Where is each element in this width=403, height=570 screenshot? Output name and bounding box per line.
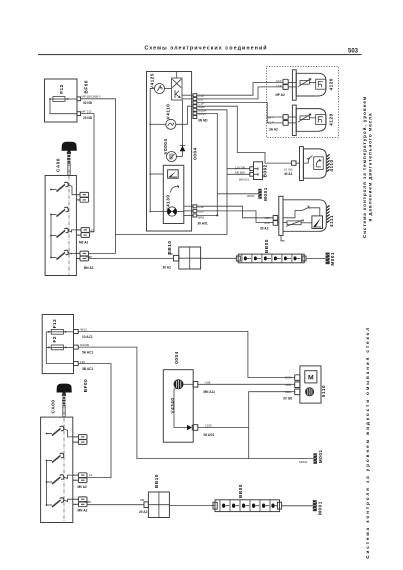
wire battery to strip: [201, 257, 237, 259]
instrument cluster 0004 box: [147, 72, 192, 232]
svg-text:M001: M001: [317, 501, 322, 515]
svg-text:BB10: BB10: [154, 474, 159, 488]
svg-text:C1P: C1P: [198, 205, 204, 209]
flange: [300, 147, 304, 181]
gauge V4125: [150, 84, 171, 94]
svg-text:61P: 61P: [198, 210, 203, 214]
sensor element box: [316, 115, 326, 125]
internal bus: [46, 332, 73, 364]
svg-text:5A AC1: 5A AC1: [82, 350, 93, 354]
svg-text:BM A21: BM A21: [239, 178, 250, 182]
thread hatch: [327, 154, 330, 171]
svg-text:MF 6B-D/6B-3: MF 6B-D/6B-3: [82, 95, 102, 99]
connector B002: [235, 162, 267, 182]
switch axis dash-dot: [68, 163, 70, 276]
module stubs to pins: [184, 206, 193, 215]
svg-text:BF00: BF00: [84, 80, 89, 93]
dashed enclosure: [267, 67, 339, 138]
flange: [279, 196, 283, 235]
svg-text:30 A2: 30 A2: [163, 265, 172, 269]
wire c4 to battery: [87, 504, 144, 506]
svg-text:B002: B002: [262, 164, 267, 177]
switch left bus: [50, 215, 52, 258]
svg-text:0004: 0004: [174, 351, 179, 363]
wire q3 to junction: [197, 214, 218, 216]
wire p5 to B002 net: [197, 110, 227, 235]
pin labels q: [198, 205, 204, 220]
lamp V4130: [150, 207, 184, 216]
wire q2 to 4111: [197, 211, 273, 223]
svg-text:MF 132: MF 132: [82, 109, 93, 113]
svg-text:M88: M88: [85, 500, 91, 504]
svg-text:NP A2: NP A2: [276, 93, 285, 97]
wire bus to module: [150, 173, 163, 175]
header rule: [38, 54, 361, 55]
earth strip BB00: [236, 239, 306, 263]
connector BF00 out1: [77, 97, 81, 101]
connector out3: [74, 362, 79, 366]
lamp V0004: [167, 152, 183, 162]
svg-text:3N ND: 3N ND: [198, 118, 208, 122]
sidebar caption top: [361, 96, 372, 238]
svg-text:40 A2: 40 A2: [284, 172, 293, 176]
svg-text:M001: M001: [263, 187, 268, 201]
svg-text:BB00: BB00: [264, 239, 269, 253]
flange: [292, 70, 296, 100]
junction: [216, 214, 218, 216]
ground M001 mid: [313, 449, 322, 463]
svg-text:14 T: 14 T: [268, 116, 274, 120]
wire branch B002 pin1: [227, 168, 250, 170]
wire p1 to sensor: [197, 83, 283, 96]
svg-text:C1P: C1P: [276, 84, 282, 88]
arc symbol: [171, 185, 180, 192]
svg-text:и давлением двигательного масл: и давлением двигательного масла: [368, 113, 373, 222]
earth strip BB00 lower: [213, 484, 282, 512]
svg-text:CA00: CA00: [56, 158, 61, 172]
svg-text:CA00: CA00: [51, 400, 56, 414]
svg-text:Система контроля за температур: Система контроля за температурой, уровне…: [361, 96, 367, 238]
switch contact 3: [46, 475, 73, 484]
body: [303, 149, 326, 178]
thread hatch: [327, 205, 330, 222]
svg-text:08 AG1: 08 AG1: [204, 433, 215, 437]
svg-text:503: 503: [348, 49, 359, 55]
svg-text:Схемы электрических соединен: Схемы электрических соединений: [144, 45, 267, 52]
wire p4 to 4110: [197, 106, 292, 163]
ignition switch box lower: [41, 417, 73, 522]
cluster 0004 lower box: [163, 370, 193, 443]
wire lamp down with diode: [174, 388, 192, 431]
svg-text:12V 6B: 12V 6B: [235, 165, 245, 169]
svg-text:M0 A2: M0 A2: [78, 485, 87, 489]
ignition switch CA00 box: [45, 176, 76, 276]
lamp V4340: [174, 380, 183, 389]
svg-text:BR5: BR5: [198, 216, 204, 220]
wire strip to ground lower: [282, 505, 313, 507]
svg-text:3A A2: 3A A2: [269, 128, 278, 132]
sensor 4120 upper: [276, 70, 334, 100]
fuse F12: [49, 97, 77, 102]
switch contact 4: [46, 498, 73, 507]
wire ground branch: [217, 193, 258, 195]
svg-text:A08: A08: [205, 380, 211, 384]
switch contact 3: [50, 228, 76, 237]
svg-text:V4130: V4130: [165, 194, 170, 210]
svg-text:M6 BW: M6 BW: [235, 170, 245, 174]
connector c1 lower: [73, 435, 87, 445]
svg-text:20 A2: 20 A2: [139, 510, 148, 514]
svg-text:10: 10: [91, 228, 95, 232]
wires pin to flange: [288, 82, 296, 84]
svg-text:30 A2: 30 A2: [260, 227, 269, 231]
meter symbol: [168, 170, 179, 178]
svg-text:V4125: V4125: [150, 73, 155, 89]
connector CA00 c1: [76, 192, 88, 202]
pin connectors: [283, 79, 288, 84]
svg-text:F12: F12: [52, 319, 57, 329]
wire q1 to 4111: [197, 206, 273, 218]
wire BF00 out2 to CA00 conn3: [81, 114, 94, 232]
svg-text:4120: 4120: [328, 113, 333, 125]
svg-text:4120: 4120: [328, 78, 333, 90]
internal bus: [149, 89, 151, 213]
pin connectors: [283, 115, 288, 120]
wire CA00 c4 to battery: [89, 258, 174, 260]
washer level sensor 5110: [283, 366, 326, 403]
ignition key lower: [57, 384, 72, 417]
ground M001 lower: [313, 500, 323, 515]
svg-text:F2: F2: [52, 336, 57, 342]
svg-text:10: 10: [89, 473, 93, 477]
fuse F12: [46, 329, 73, 334]
connector c4 lower: [73, 497, 87, 507]
wire 0004 to ground: [198, 428, 314, 459]
svg-text:M313: M313: [198, 112, 206, 116]
svg-text:1200: 1200: [205, 424, 212, 428]
contact: [303, 156, 312, 164]
connector BF00 out2: [77, 112, 81, 116]
wire lower sensor pin2: [267, 117, 283, 123]
connector out2: [74, 345, 79, 349]
switch axis: [63, 405, 65, 523]
svg-text:F12: F12: [59, 84, 64, 94]
svg-text:30 ND: 30 ND: [83, 101, 93, 105]
wire p6 to ground: [197, 113, 218, 215]
svg-text:61 GB: 61 GB: [284, 168, 293, 172]
svg-text:10 AC1: 10 AC1: [82, 335, 93, 339]
ignition key: [62, 142, 77, 176]
pins q1-q3: [193, 205, 197, 217]
internal resistor: [283, 220, 312, 227]
wire p3 to lower sensor: [197, 103, 283, 117]
battery BB10: [163, 241, 201, 270]
wire fuse2 to 5110: [78, 347, 295, 458]
svg-text:C0M: C0M: [285, 376, 292, 380]
wire strip to ground: [306, 257, 326, 259]
svg-text:M001: M001: [330, 252, 335, 266]
svg-text:M: M: [308, 374, 314, 381]
svg-text:BB00: BB00: [238, 484, 243, 498]
ground M001 near B002: [247, 187, 268, 201]
svg-text:20 ND: 20 ND: [83, 116, 93, 120]
pins p1-p7: [193, 94, 197, 119]
wire BF00 out1 to CA00 conn4: [81, 99, 116, 254]
svg-text:M2A: M2A: [285, 390, 291, 394]
wire 0004 to 5110: [198, 383, 295, 385]
fuse box BF00: [45, 79, 78, 122]
wire p2 to sensor: [197, 87, 283, 99]
pin 0004 lower: [193, 425, 198, 431]
svg-text:C1P: C1P: [276, 79, 282, 83]
svg-text:V0004: V0004: [163, 138, 168, 154]
connector c3 lower: [73, 473, 87, 483]
ground M001 right: [326, 252, 335, 266]
wire out3 to switch: [78, 364, 111, 478]
sensor 4120 lower: [268, 105, 333, 135]
svg-text:130: 130: [80, 360, 85, 364]
svg-text:M0 A2: M0 A2: [79, 241, 88, 245]
pressure switch 4110: [284, 147, 334, 181]
svg-text:Система контроля за уровнем жи: Система контроля за уровнем жидкости омы…: [365, 326, 370, 559]
connector out1: [74, 330, 79, 334]
svg-text:5110: 5110: [321, 385, 326, 397]
svg-text:0004: 0004: [192, 147, 197, 159]
body: [296, 109, 326, 132]
pin labels p: [198, 94, 207, 116]
svg-text:3B AC1: 3B AC1: [82, 367, 93, 371]
pin 0004 upper: [193, 382, 198, 388]
svg-text:BF00: BF00: [83, 379, 88, 392]
svg-text:61P: 61P: [265, 221, 270, 225]
svg-text:M1300: M1300: [80, 343, 90, 347]
body: [296, 73, 326, 96]
svg-text:30 A01: 30 A01: [198, 221, 208, 225]
svg-text:M0M1: M0M1: [299, 460, 308, 464]
svg-text:M001: M001: [318, 449, 323, 463]
svg-text:C1P: C1P: [265, 216, 271, 220]
svg-text:4110: 4110: [329, 159, 334, 171]
connector CA00 c3: [76, 228, 89, 238]
switch contact 1: [46, 426, 73, 437]
connector CA00 c4: [76, 251, 88, 261]
fuse F2: [46, 345, 73, 350]
switch contact 2: [50, 207, 68, 216]
svg-text:MN A2: MN A2: [78, 509, 88, 513]
switch contact 4: [50, 250, 76, 259]
internal switch: [283, 206, 320, 218]
wire lamp to pin: [183, 383, 193, 385]
svg-text:M8: M8: [169, 252, 173, 256]
thermistor: [298, 114, 316, 122]
svg-text:BN A2: BN A2: [84, 266, 94, 270]
diode: [180, 100, 186, 157]
svg-text:3V G8: 3V G8: [283, 397, 292, 401]
lamp and driver block: [172, 72, 194, 101]
svg-text:M8: M8: [140, 498, 144, 502]
wires pin to flange: [288, 116, 296, 118]
lamp V4110: [150, 106, 193, 129]
fuse box BF00 lower: [42, 315, 73, 374]
switch contact 1: [50, 182, 76, 195]
wire branch B002 pin2: [227, 173, 250, 175]
thermistor: [298, 79, 316, 87]
body: [283, 200, 326, 232]
gauge module box: [163, 165, 184, 223]
svg-text:11 T: 11 T: [268, 121, 274, 125]
svg-text:V1B: V1B: [285, 383, 291, 387]
level sensor 4111: [260, 196, 334, 241]
svg-text:4111: 4111: [329, 215, 334, 227]
wire battery to strip lower: [169, 505, 215, 507]
svg-text:200M: 200M: [247, 194, 255, 198]
sensor element box: [316, 79, 326, 89]
needle gauge: [312, 216, 323, 229]
wire fuse1 to 5110: [78, 331, 295, 377]
svg-text:V4110: V4110: [166, 104, 171, 120]
wire branch y234.6: [115, 234, 227, 236]
switch left bus: [46, 461, 48, 506]
battery BB10 lower: [139, 474, 169, 517]
element box: [314, 157, 324, 170]
switch contact 2: [46, 453, 64, 462]
flange: [292, 105, 296, 135]
wire internal BF00: [50, 99, 77, 114]
svg-text:MN A11: MN A11: [204, 390, 216, 394]
